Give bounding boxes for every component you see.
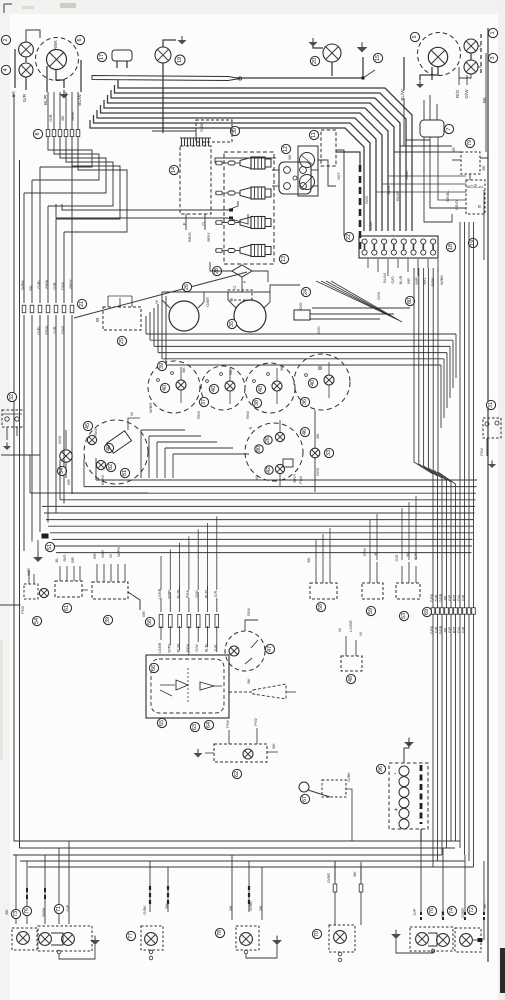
svg-text:40: 40 — [310, 380, 316, 386]
svg-text:BK: BK — [444, 627, 448, 632]
svg-text:19: 19 — [177, 57, 183, 63]
svg-text:W/PK: W/PK — [116, 547, 121, 558]
svg-text:48: 48 — [348, 676, 354, 682]
svg-text:BK: BK — [287, 154, 292, 160]
svg-text:W: W — [129, 412, 134, 416]
svg-text:37: 37 — [201, 399, 207, 405]
svg-text:BL/R: BL/R — [205, 590, 209, 598]
svg-text:81: 81 — [122, 470, 128, 476]
svg-text:31: 31 — [488, 402, 494, 408]
svg-text:58: 58 — [318, 604, 324, 610]
svg-text:42: 42 — [266, 467, 272, 473]
svg-text:40: 40 — [211, 386, 217, 392]
svg-text:51: 51 — [47, 544, 53, 550]
svg-text:G/R: G/R — [435, 626, 439, 633]
svg-text:32: 32 — [9, 394, 15, 400]
svg-text:G/W: G/W — [195, 590, 199, 598]
svg-text:66: 66 — [151, 665, 157, 671]
svg-text:G/W: G/W — [376, 292, 381, 300]
svg-text:17: 17 — [99, 54, 105, 60]
svg-text:R/W: R/W — [196, 411, 201, 419]
svg-text:BK: BK — [279, 365, 284, 371]
svg-text:3: 3 — [490, 57, 496, 60]
svg-text:BR: BR — [92, 553, 97, 559]
svg-text:56: 56 — [147, 619, 153, 625]
svg-text:W: W — [358, 632, 363, 636]
svg-text:74: 74 — [449, 908, 455, 914]
svg-text:G/W: G/W — [60, 282, 65, 290]
svg-text:W: W — [337, 628, 342, 632]
svg-text:R/O: R/O — [440, 910, 445, 917]
svg-text:40: 40 — [258, 386, 264, 392]
svg-text:W/R: W/R — [26, 568, 31, 576]
svg-text:G/BK: G/BK — [430, 625, 434, 634]
svg-text:BL/W: BL/W — [177, 589, 181, 598]
svg-text:LG/BR: LG/BR — [349, 620, 353, 632]
svg-text:W/R: W/R — [414, 277, 419, 285]
svg-text:BK: BK — [482, 903, 487, 909]
svg-text:BK: BK — [228, 369, 233, 375]
svg-text:P/W: P/W — [479, 448, 484, 456]
svg-text:8: 8 — [35, 133, 41, 136]
svg-text:96: 96 — [378, 766, 384, 772]
svg-text:W/BR: W/BR — [148, 403, 153, 414]
svg-text:W/PK: W/PK — [167, 643, 171, 653]
svg-text:G/Y: G/Y — [413, 552, 418, 559]
svg-text:R: R — [248, 426, 253, 429]
svg-text:BL/W: BL/W — [382, 273, 387, 283]
svg-text:R/BK: R/BK — [404, 170, 409, 180]
svg-text:G/W: G/W — [364, 196, 369, 204]
svg-text:R/O: R/O — [455, 89, 460, 98]
svg-text:38: 38 — [254, 400, 260, 406]
svg-text:18: 18 — [448, 244, 454, 250]
svg-text:BR: BR — [70, 557, 75, 563]
svg-text:13: 13 — [281, 256, 287, 262]
svg-text:G/W: G/W — [60, 326, 65, 334]
svg-text:14: 14 — [171, 167, 177, 173]
svg-text:BL/R: BL/R — [386, 185, 391, 194]
svg-text:G/R: G/R — [214, 590, 218, 597]
svg-text:47: 47 — [267, 646, 273, 652]
svg-text:26: 26 — [184, 284, 190, 290]
svg-text:W/BK: W/BK — [20, 280, 25, 291]
svg-text:BK: BK — [306, 557, 311, 563]
svg-text:67: 67 — [302, 796, 308, 802]
svg-text:BK: BK — [60, 115, 65, 121]
svg-text:20: 20 — [312, 58, 318, 64]
svg-text:G/P: G/P — [65, 904, 70, 911]
svg-text:BR/Y: BR/Y — [206, 232, 211, 242]
svg-text:82: 82 — [108, 464, 114, 470]
svg-text:70: 70 — [314, 931, 320, 937]
svg-text:R/BK: R/BK — [70, 111, 75, 121]
svg-text:2: 2 — [3, 39, 9, 42]
svg-text:71: 71 — [56, 906, 62, 912]
svg-text:36: 36 — [302, 399, 308, 405]
svg-text:BR/Y: BR/Y — [68, 279, 73, 289]
svg-text:BK: BK — [246, 678, 251, 684]
svg-text:39: 39 — [105, 617, 111, 623]
svg-text:+: + — [394, 807, 398, 814]
svg-text:72: 72 — [469, 907, 475, 913]
svg-text:4: 4 — [3, 69, 9, 72]
svg-text:BR: BR — [451, 147, 456, 153]
svg-text:G/BL: G/BL — [36, 325, 41, 335]
svg-text:R/G: R/G — [422, 277, 427, 284]
svg-text:46: 46 — [302, 429, 308, 435]
svg-text:W/R: W/R — [100, 550, 105, 558]
svg-text:R/W: R/W — [245, 411, 250, 419]
svg-text:G/R: G/R — [462, 626, 466, 633]
svg-text:P/BK: P/BK — [44, 279, 49, 288]
svg-text:G/R: G/R — [462, 594, 466, 601]
svg-text:G/BK: G/BK — [142, 905, 147, 915]
svg-text:G/BK: G/BK — [430, 593, 434, 602]
svg-text:BK: BK — [481, 165, 486, 171]
svg-text:G/R: G/R — [22, 93, 27, 102]
svg-text:30: 30 — [232, 128, 238, 134]
svg-text:BL/R: BL/R — [205, 644, 209, 652]
svg-text:G/BR: G/BR — [439, 593, 443, 602]
svg-text:G/R: G/R — [52, 282, 57, 289]
svg-text:BR: BR — [141, 611, 146, 617]
svg-text:G/W: G/W — [464, 89, 469, 99]
svg-text:R/O: R/O — [453, 627, 457, 634]
svg-text:BK: BK — [444, 595, 448, 600]
svg-text:62: 62 — [234, 771, 240, 777]
svg-text:G/BR: G/BR — [199, 122, 204, 132]
svg-text:G/BR: G/BR — [460, 908, 465, 918]
svg-text:BR: BR — [406, 278, 411, 284]
svg-text:W/PK: W/PK — [167, 589, 171, 599]
svg-text:39: 39 — [159, 363, 165, 369]
svg-text:78: 78 — [217, 930, 223, 936]
svg-text:P/BK: P/BK — [186, 589, 190, 598]
svg-text:P: P — [242, 280, 247, 283]
svg-text:G/W: G/W — [57, 436, 62, 444]
svg-text:25: 25 — [119, 338, 125, 344]
svg-text:G/R: G/R — [52, 326, 57, 333]
svg-text:R/BK: R/BK — [430, 277, 435, 287]
svg-text:G/V: G/V — [457, 626, 461, 633]
svg-text:54: 54 — [34, 618, 40, 624]
svg-text:59: 59 — [368, 608, 374, 614]
svg-text:63: 63 — [192, 724, 198, 730]
svg-text:G/BR: G/BR — [326, 873, 331, 883]
svg-text:BK: BK — [4, 909, 9, 915]
svg-text:BK: BK — [181, 367, 186, 373]
svg-text:G/W: G/W — [315, 468, 320, 476]
svg-text:G/R: G/R — [435, 594, 439, 601]
svg-text:6: 6 — [77, 39, 83, 42]
svg-text:26: 26 — [265, 437, 271, 443]
svg-text:R/BK: R/BK — [41, 907, 46, 917]
svg-text:G/O: G/O — [316, 326, 321, 333]
svg-text:G/P: G/P — [412, 908, 417, 915]
svg-text:BR: BR — [66, 479, 71, 485]
svg-text:BK: BK — [271, 743, 276, 749]
svg-text:BK: BK — [352, 871, 357, 877]
svg-text:69: 69 — [424, 609, 430, 615]
svg-text:BL/W: BL/W — [395, 191, 400, 201]
svg-text:5: 5 — [412, 36, 418, 39]
svg-text:P/W: P/W — [225, 720, 230, 728]
svg-text:BL/W: BL/W — [177, 643, 181, 652]
svg-text:BK: BK — [258, 905, 263, 911]
svg-text:15: 15 — [375, 55, 381, 61]
svg-text:61: 61 — [64, 605, 70, 611]
svg-text:BL/W: BL/W — [400, 89, 405, 101]
svg-text:G/P: G/P — [448, 594, 452, 601]
svg-text:P/W: P/W — [20, 606, 25, 614]
svg-text:35: 35 — [229, 321, 235, 327]
svg-text:79: 79 — [467, 140, 473, 146]
svg-text:R/W: R/W — [93, 428, 98, 436]
svg-text:19: 19 — [470, 240, 476, 246]
svg-text:R/BK: R/BK — [53, 40, 58, 50]
svg-text:W: W — [108, 554, 113, 558]
svg-text:R/O: R/O — [62, 554, 67, 561]
svg-text:G/O: G/O — [390, 276, 395, 283]
svg-text:B: B — [478, 204, 481, 209]
svg-text:G/BK: G/BK — [248, 901, 253, 911]
svg-text:W: W — [254, 476, 259, 480]
svg-text:BR/Y: BR/Y — [293, 473, 297, 482]
svg-text:P/BK: P/BK — [44, 325, 49, 334]
svg-text:BL/R: BL/R — [398, 275, 403, 284]
svg-text:BK: BK — [164, 903, 169, 909]
svg-text:80: 80 — [407, 298, 413, 304]
svg-text:W: W — [154, 300, 159, 304]
svg-text:80: 80 — [256, 446, 262, 452]
svg-text:G/O: G/O — [298, 302, 303, 309]
svg-text:P/BK: P/BK — [186, 643, 190, 652]
svg-text:BL: BL — [54, 557, 59, 563]
svg-text:33: 33 — [326, 450, 332, 456]
svg-text:53: 53 — [401, 613, 407, 619]
svg-text:64: 64 — [206, 722, 212, 728]
svg-text:G/BR: G/BR — [439, 625, 443, 634]
svg-text:45: 45 — [85, 423, 91, 429]
svg-text:P/W: P/W — [253, 718, 258, 726]
svg-text:12: 12 — [283, 146, 289, 152]
svg-text:R/O: R/O — [453, 595, 457, 602]
svg-text:BL/R: BL/R — [43, 94, 48, 105]
svg-text:G/R: G/R — [214, 644, 218, 651]
svg-text:BK: BK — [228, 905, 233, 911]
svg-text:W/Y: W/Y — [336, 172, 341, 180]
svg-text:W/BK: W/BK — [439, 275, 444, 286]
svg-text:24: 24 — [303, 289, 309, 295]
svg-text:G: G — [232, 285, 237, 288]
svg-text:G/BR: G/BR — [205, 297, 210, 307]
svg-text:7: 7 — [446, 128, 452, 131]
svg-text:73: 73 — [13, 911, 19, 917]
svg-text:G/S: G/S — [394, 554, 399, 561]
svg-text:22: 22 — [346, 234, 352, 240]
svg-text:R/BK: R/BK — [368, 221, 373, 231]
svg-text:G/BL: G/BL — [36, 279, 41, 289]
svg-text:76: 76 — [429, 908, 435, 914]
svg-text:LG/BR: LG/BR — [158, 642, 162, 653]
svg-text:G/V: G/V — [457, 594, 461, 601]
svg-text:G/R: G/R — [48, 114, 53, 121]
svg-text:65: 65 — [159, 720, 165, 726]
svg-text:40: 40 — [162, 385, 168, 391]
svg-text:11: 11 — [311, 132, 317, 138]
svg-text:76: 76 — [24, 908, 30, 914]
svg-text:R/W: R/W — [362, 548, 367, 556]
svg-text:BK: BK — [28, 285, 33, 291]
svg-text:G/W: G/W — [195, 644, 199, 652]
svg-text:BK: BK — [315, 433, 320, 439]
svg-text:G/P: G/P — [448, 626, 452, 633]
svg-text:F: F — [480, 185, 485, 188]
svg-text:1: 1 — [490, 32, 496, 35]
svg-text:G/BK: G/BK — [346, 772, 351, 782]
svg-text:R/W: R/W — [246, 608, 251, 616]
svg-text:77: 77 — [128, 933, 134, 939]
svg-text:21: 21 — [79, 301, 85, 307]
svg-text:BR/G: BR/G — [187, 232, 192, 242]
